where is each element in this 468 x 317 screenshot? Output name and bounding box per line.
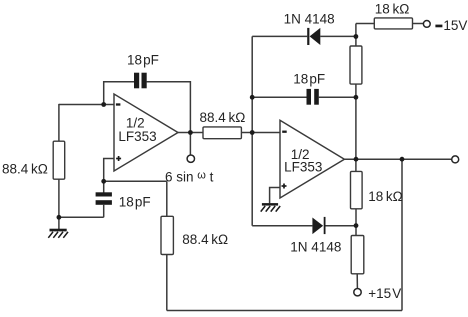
wire U2 non-inverting input to ground bbox=[270, 188, 280, 204]
wire U2 output line to output terminal bbox=[344, 158, 451, 160]
junction bus / C2 node bbox=[250, 95, 255, 100]
wire node to 6sin line bbox=[104, 180, 167, 182]
resistor 88.4k (bottom vertical) bbox=[161, 216, 173, 254]
power label -15V bbox=[435, 18, 467, 33]
resistor 18k (top right) bbox=[374, 18, 412, 29]
wire U1 output to resistor bbox=[178, 132, 203, 134]
terminal 6 sin wt bbox=[187, 155, 194, 162]
wire U1 feedback left side bbox=[104, 82, 135, 105]
wire node to capacitor C2 left bbox=[252, 96, 306, 98]
wire capacitor C2 right to column bbox=[319, 96, 356, 98]
junction diode D2 node bbox=[354, 223, 359, 228]
resistor 88.4k (left) bbox=[53, 141, 64, 179]
svg-text:18 pF: 18 pF bbox=[119, 195, 151, 210]
wire bottom feedback horizontal bbox=[167, 310, 402, 312]
wire to diode D1 cathode bbox=[252, 35, 307, 37]
svg-text:18 kΩ: 18 kΩ bbox=[368, 189, 403, 204]
wire left resistor bottom to ground bbox=[58, 179, 60, 229]
junction U1 non-inverting node bbox=[101, 179, 106, 184]
svg-text:LF353: LF353 bbox=[118, 129, 156, 144]
svg-text:+15 V: +15 V bbox=[368, 286, 401, 301]
ground (U2 non-inverting input) bbox=[261, 203, 281, 212]
op-amp U2 (1/2 LF353) bbox=[280, 120, 344, 198]
junction ground node bbox=[57, 215, 62, 220]
terminal -15V bbox=[423, 21, 430, 28]
junction C2 right node bbox=[354, 95, 359, 100]
svg-text:88.4 kΩ: 88.4 kΩ bbox=[182, 232, 228, 247]
resistor (right column lower) bbox=[351, 236, 364, 274]
wire 18k resistor to -15V terminal bbox=[413, 23, 424, 25]
wire 6sin corner down to resistor bbox=[166, 181, 168, 216]
svg-text:88.4 kΩ: 88.4 kΩ bbox=[200, 110, 246, 125]
wire ground row horizontal bbox=[59, 216, 104, 218]
resistor 18k (right column middle) bbox=[351, 171, 363, 208]
op-amp U1 (1/2 LF353) bbox=[114, 94, 178, 171]
wire capacitor C3 top stub bbox=[103, 181, 105, 192]
wire diode D1 anode to node bbox=[320, 35, 356, 37]
svg-text:18 kΩ: 18 kΩ bbox=[375, 2, 410, 17]
wire top corner to 18k resistor bbox=[356, 23, 374, 25]
diode D1 1N4148 (top, pointing left) bbox=[307, 28, 320, 45]
terminal output bbox=[452, 156, 459, 163]
wire U1 feedback right side down to output bbox=[147, 82, 191, 133]
wire long vertical bus x=252 bbox=[251, 36, 253, 225]
junction output feedback node bbox=[400, 157, 405, 162]
wire U1 non-inverting input bbox=[104, 159, 114, 182]
wire right feedback vertical bbox=[401, 159, 403, 310]
junction U2 output node bbox=[354, 157, 359, 162]
wire between 18k resistor and lower resistor bbox=[355, 209, 357, 236]
svg-text:18 pF: 18 pF bbox=[293, 71, 325, 86]
svg-text:6 sin ω t: 6 sin ω t bbox=[165, 169, 214, 184]
resistor 88.4k (middle horizontal) bbox=[203, 127, 241, 139]
wire U1 inverting input from left resistor bbox=[59, 104, 114, 106]
svg-text:1N 4148: 1N 4148 bbox=[290, 239, 341, 254]
wire diode D2 cathode to node bbox=[325, 225, 356, 227]
wire bottom resistor to bottom wire bbox=[166, 255, 168, 311]
svg-text:15V: 15V bbox=[443, 18, 467, 33]
wire bus to diode D2 anode bbox=[252, 225, 312, 227]
junction U2 inverting node bbox=[250, 130, 255, 135]
resistor (right column upper) bbox=[350, 46, 362, 84]
wire top-right corner vertical bbox=[355, 24, 357, 47]
capacitor 18pF C1 (U1 feedback) bbox=[134, 73, 147, 89]
capacitor 18pF C3 (U1 +input, vertical) bbox=[96, 192, 112, 205]
wire lower resistor to +15V terminal bbox=[356, 274, 358, 289]
junction U1 output node bbox=[188, 130, 193, 135]
junction U1 inverting node bbox=[101, 102, 106, 107]
diode D2 1N4148 (bottom, pointing right) bbox=[312, 217, 325, 234]
svg-text:18 pF: 18 pF bbox=[127, 53, 159, 68]
wire left resistor top vertical bbox=[58, 104, 60, 141]
capacitor 18pF C2 (U2 feedback) bbox=[307, 89, 319, 105]
wire capacitor C3 bottom stub bbox=[103, 205, 105, 218]
ground (left, below 88.4k) bbox=[48, 229, 68, 238]
svg-text:LF353: LF353 bbox=[284, 160, 322, 175]
terminal +15V bbox=[354, 289, 361, 296]
wire resistor to U2 inverting input bbox=[241, 132, 280, 134]
svg-text:88.4 kΩ: 88.4 kΩ bbox=[2, 162, 48, 177]
junction top right node bbox=[354, 34, 359, 39]
svg-text:1N 4148: 1N 4148 bbox=[284, 12, 335, 27]
wire right column middle vertical bbox=[355, 84, 357, 171]
wire stub to 6sin terminal bbox=[189, 133, 191, 155]
